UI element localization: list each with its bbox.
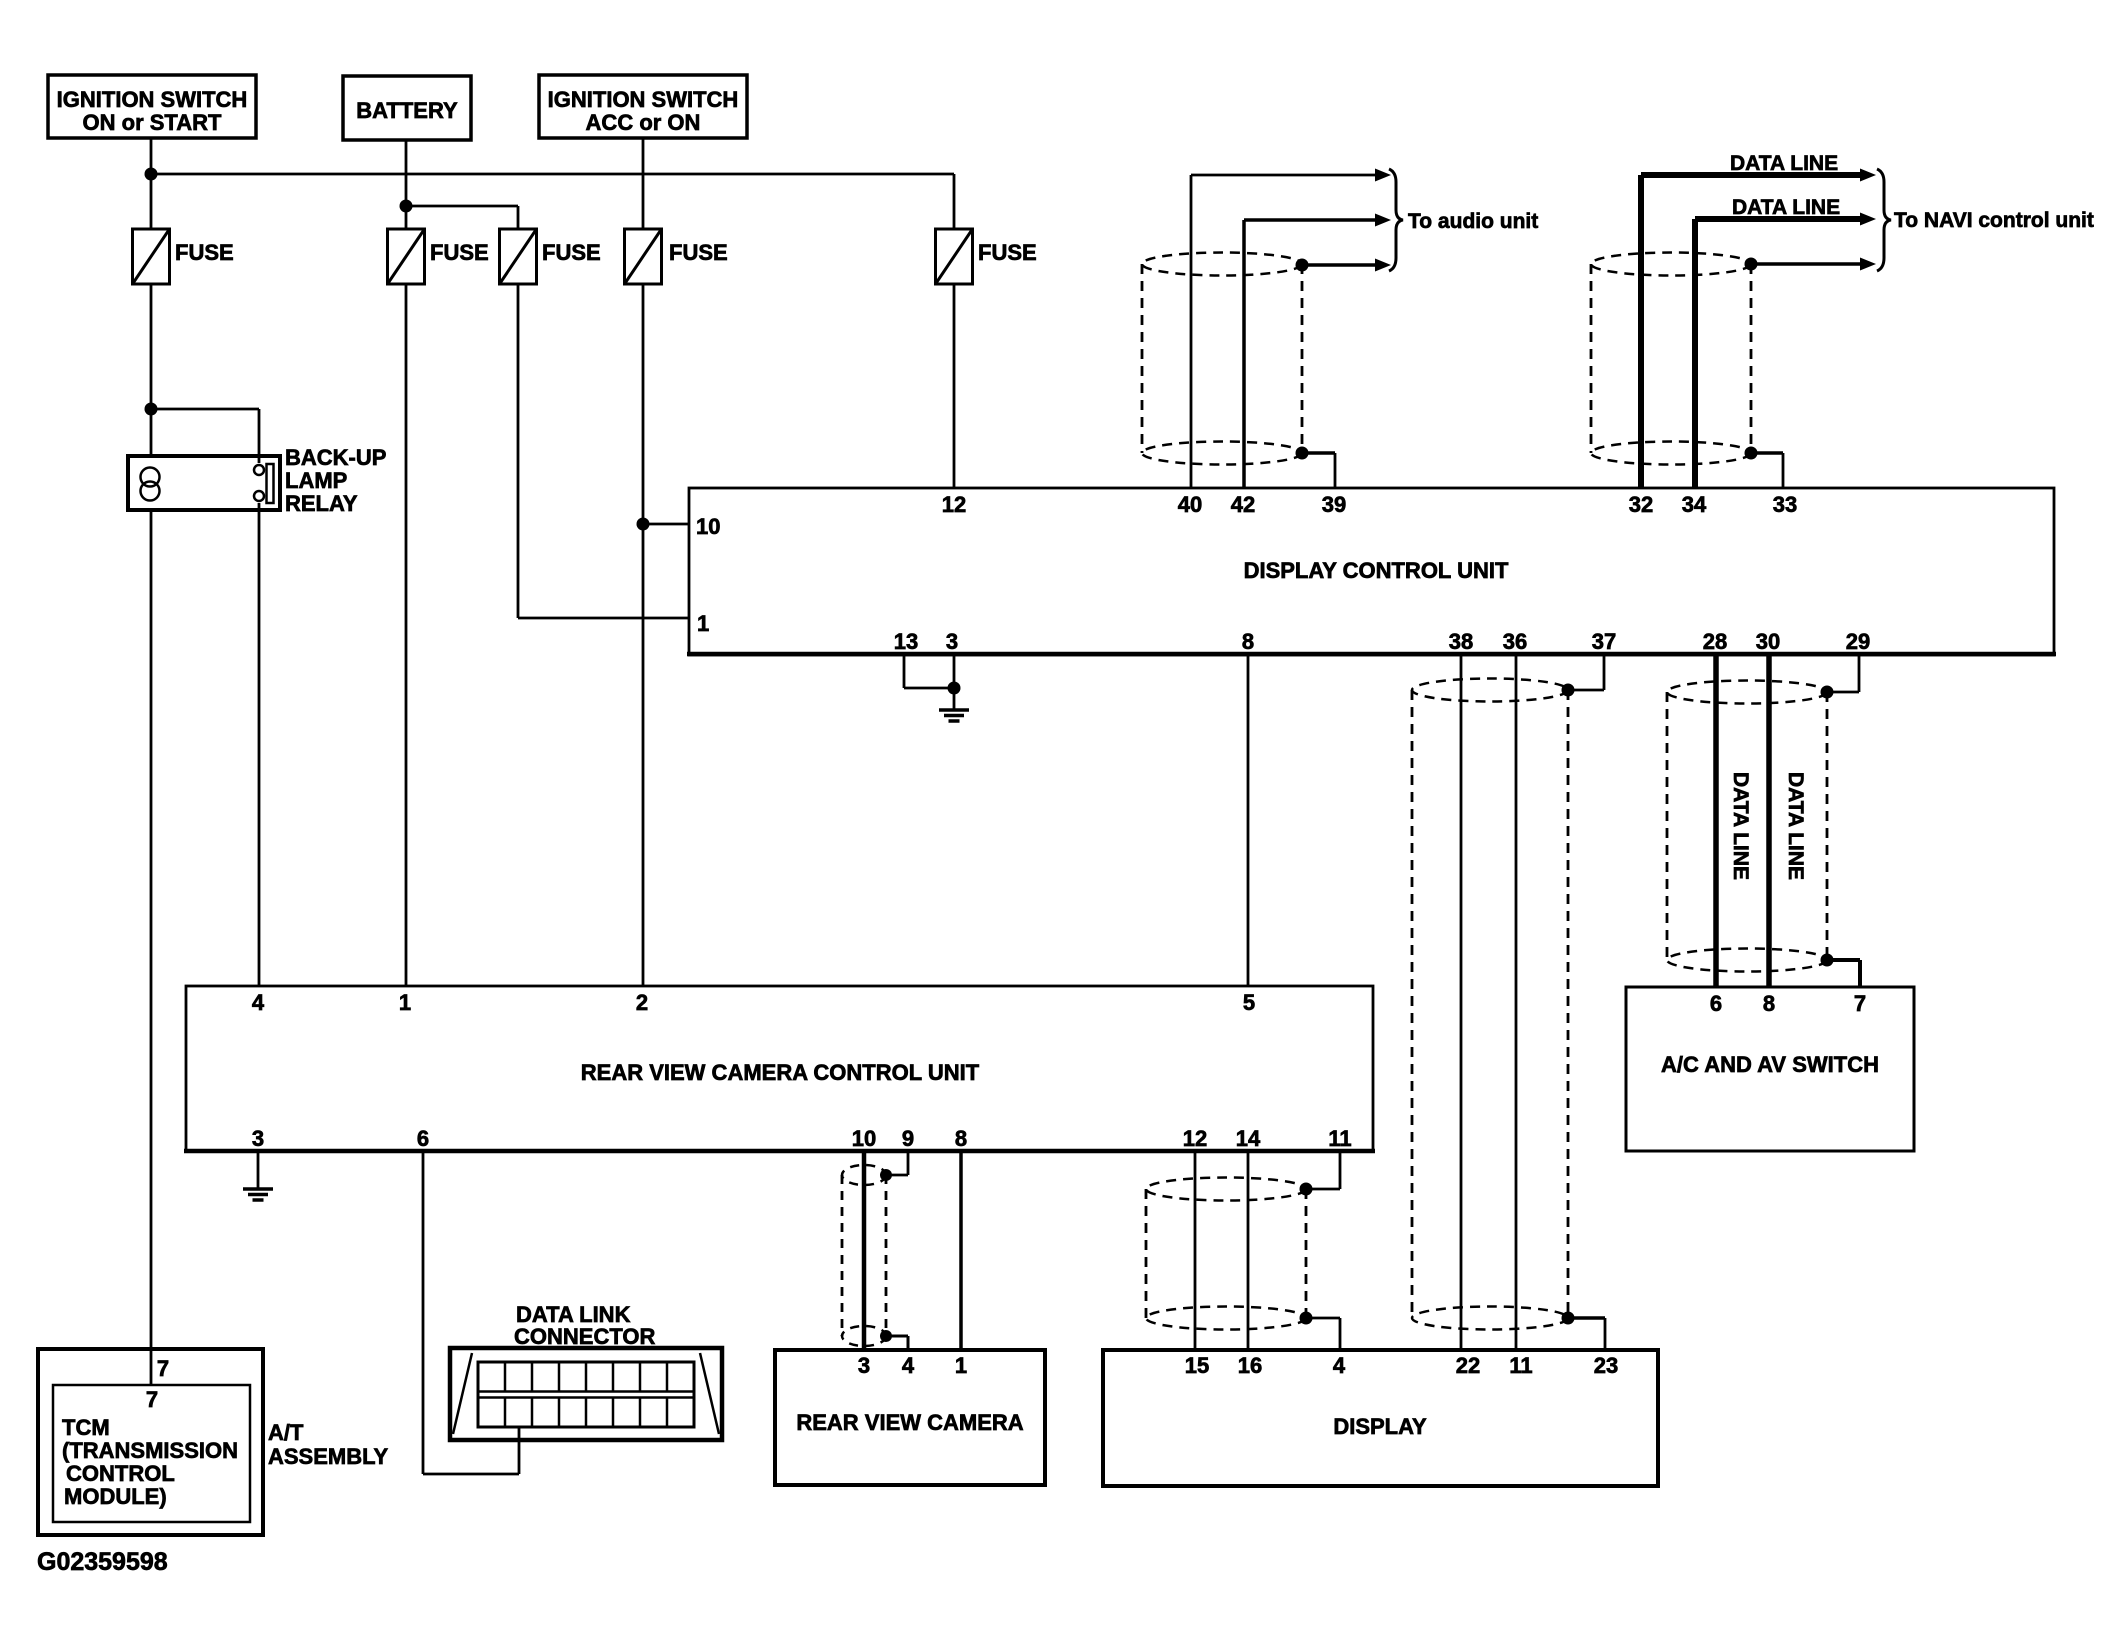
junction: shield drain top (1296, 259, 1309, 272)
wire: pin 42 to audio arrow (1244, 218, 1384, 222)
svg-text:ASSEMBLY: ASSEMBLY (268, 1444, 389, 1469)
wire: DCU pin 36 to display pin 11 (1515, 655, 1518, 1350)
svg-text:CONNECTOR: CONNECTOR (514, 1324, 655, 1349)
wire: pin 11 to shield drain (1306, 1188, 1340, 1191)
svg-text:33: 33 (1773, 492, 1797, 517)
wire: battery branch right (406, 205, 518, 208)
svg-text:37: 37 (1592, 629, 1616, 654)
junction: IGN ON bus tap (145, 168, 158, 181)
svg-text:28: 28 (1703, 629, 1727, 654)
svg-text:A/C AND AV SWITCH: A/C AND AV SWITCH (1661, 1052, 1879, 1077)
svg-text:LAMP: LAMP (285, 468, 347, 493)
svg-text:12: 12 (942, 492, 966, 517)
junction: NAVI shield drain bottom (1745, 447, 1758, 460)
wire: branch down to fuse F3 (517, 206, 520, 229)
svg-text:BATTERY: BATTERY (356, 98, 458, 123)
svg-text:RELAY: RELAY (285, 491, 358, 516)
arrowhead: to audio unit (pin 42) (1375, 214, 1391, 227)
svg-text:FUSE: FUSE (669, 240, 728, 265)
svg-text:5: 5 (1243, 990, 1255, 1015)
svg-text:34: 34 (1682, 492, 1707, 517)
svg-text:7: 7 (1854, 991, 1866, 1016)
svg-text:11: 11 (1328, 1126, 1351, 1151)
wire: RVCCU pin 11 down (1339, 1153, 1342, 1189)
svg-text:10: 10 (696, 514, 720, 539)
arrowhead: to NAVI (shield) (1860, 258, 1876, 271)
wire: fuse F2 to camera control unit pin 1 (405, 284, 408, 986)
data line wire: DCU pin 28 to A/C switch pin 6 (1713, 655, 1719, 987)
shield drain side (right) (1305, 1189, 1308, 1318)
wire: up into data link connector (518, 1427, 521, 1474)
svg-text:13: 13 (894, 629, 918, 654)
wire: pin 6 to data link connector (423, 1473, 519, 1476)
svg-text:6: 6 (417, 1126, 429, 1151)
svg-text:3: 3 (252, 1126, 264, 1151)
junction: RVCCU shield drain bottom (1300, 1312, 1313, 1325)
wire: relay contact to camera control unit pin 4 (258, 503, 261, 986)
shielded cable around pins 12/14 wires (1146, 1178, 1306, 1201)
svg-text:12: 12 (1183, 1126, 1207, 1151)
wire: DCU pin 13 down (903, 655, 906, 688)
shield side (left) (1590, 264, 1593, 453)
A/T assembly outer box (38, 1349, 263, 1535)
data line wire: DCU pin 30 to A/C switch pin 8 (1766, 655, 1772, 987)
wire: bus down to fuse F5 (953, 174, 956, 229)
svg-text:14: 14 (1236, 1126, 1261, 1151)
svg-text:8: 8 (1242, 629, 1254, 654)
svg-text:3: 3 (946, 629, 958, 654)
junction: display shield drain top (1562, 684, 1575, 697)
svg-text:22: 22 (1456, 1353, 1480, 1378)
fuse F1 (ignition) (133, 229, 234, 284)
shielded cable around camera video wire (842, 1165, 886, 1185)
junction: pins 13/3 ground node (948, 682, 961, 695)
wire: NAVI shield drain to pin 33 (1751, 451, 1783, 455)
wire: pin 37 to shield drain (1568, 689, 1604, 692)
wire: fuse F4 to camera control unit pin 2 (642, 284, 645, 986)
power source box: IGNITION SWITCH ON or START (48, 75, 256, 138)
label: TCM (TRANSMISSION CONTROL MODULE) (62, 1415, 238, 1509)
wire: branch to DCU pin 10 (643, 523, 689, 526)
data line wire: DCU pin 32 up (1638, 175, 1644, 488)
data link connector pin grid (478, 1362, 694, 1427)
svg-text:40: 40 (1178, 492, 1202, 517)
label: A/T ASSEMBLY (268, 1420, 389, 1469)
label: DATA LINK CONNECTOR (514, 1302, 655, 1349)
svg-text:39: 39 (1322, 492, 1346, 517)
svg-text:REAR VIEW CAMERA CONTROL UNIT: REAR VIEW CAMERA CONTROL UNIT (581, 1060, 980, 1085)
svg-text:ON or START: ON or START (83, 110, 222, 135)
wire: pin 40 to audio arrow (1191, 174, 1385, 177)
wire: ignition bus to DCU pin 12 branch (151, 173, 954, 176)
svg-text:BACK-UP: BACK-UP (285, 445, 386, 470)
svg-text:1: 1 (399, 990, 411, 1015)
wire: RVCCU pin 10 to camera pin 3 (video) (862, 1153, 867, 1350)
svg-text:DATA LINE: DATA LINE (1730, 152, 1838, 175)
label: BACK-UP LAMP RELAY (285, 445, 386, 516)
wire: shield drain to display pin 23 (1568, 1316, 1605, 1320)
wire: shield drain to display pin 4 (1306, 1317, 1340, 1320)
svg-text:1: 1 (955, 1353, 967, 1378)
svg-text:REAR VIEW CAMERA: REAR VIEW CAMERA (796, 1410, 1023, 1435)
wire: fuse F1 to back-up lamp relay coil (150, 284, 153, 456)
fuse F3 (battery branch) (500, 229, 601, 284)
svg-text:2: 2 (636, 990, 648, 1015)
svg-text:23: 23 (1594, 1353, 1618, 1378)
shield drain side (right) (1826, 692, 1829, 960)
wire: IGN ACC down to fuse F4 (642, 138, 645, 229)
wire: RVCCU pin 6 down (422, 1153, 425, 1474)
wire: pin 9 to camera shield drain (886, 1174, 908, 1177)
svg-text:MODULE): MODULE) (64, 1484, 167, 1509)
wire: down to display pin 23 (1604, 1318, 1607, 1350)
wire: DCU pin 38 to display pin 22 (1460, 655, 1463, 1350)
wire: down to camera pin 4 (907, 1336, 910, 1350)
svg-text:11: 11 (1509, 1353, 1532, 1378)
wire: down to A/C switch pin 7 (1858, 960, 1862, 987)
wire: DCU pin 8 to camera control unit pin 5 (1247, 655, 1250, 986)
shield side (left) (1666, 692, 1669, 960)
wire: IGN ON/START down to fuse F1 (150, 138, 153, 229)
power source box: BATTERY (343, 76, 471, 140)
junction: display shield drain bottom (1562, 1312, 1575, 1325)
svg-text:42: 42 (1231, 492, 1255, 517)
svg-text:FUSE: FUSE (542, 240, 601, 265)
junction: RVCCU shield drain top (1300, 1183, 1313, 1196)
rear view camera box (775, 1350, 1045, 1485)
svg-text:FUSE: FUSE (978, 240, 1037, 265)
svg-text:A/T: A/T (268, 1420, 304, 1445)
junction: A/C shield drain top (1821, 686, 1834, 699)
svg-text:To audio unit: To audio unit (1408, 210, 1538, 233)
shielded cable around pins 40/42 wires (1142, 253, 1302, 276)
data link connector housing (450, 1348, 722, 1440)
shield drain side (right) (1301, 264, 1304, 453)
svg-text:DATA LINE: DATA LINE (1784, 772, 1807, 880)
wire: RVCCU pin 3 to ground (257, 1153, 260, 1188)
svg-text:IGNITION SWITCH: IGNITION SWITCH (548, 87, 739, 112)
wire: RVCCU pin 9 down (907, 1153, 910, 1175)
fuse F2 (battery) (388, 229, 489, 284)
junction: camera shield drain top (880, 1169, 892, 1181)
wire: DCU pin 29 down (1858, 655, 1861, 692)
junction: battery branch (400, 200, 413, 213)
svg-text:8: 8 (1763, 991, 1775, 1016)
wire: shield drain to audio arrow (1302, 263, 1384, 267)
shield drain side (right) (1567, 690, 1570, 1318)
svg-text:(TRANSMISSION: (TRANSMISSION (62, 1438, 238, 1463)
svg-text:29: 29 (1846, 629, 1870, 654)
rear view camera control unit box (184, 986, 1375, 1151)
camera shield side (left) (841, 1175, 844, 1336)
svg-text:32: 32 (1629, 492, 1653, 517)
svg-text:4: 4 (1333, 1353, 1346, 1378)
shield drain side (right) (1750, 264, 1753, 453)
svg-text:DISPLAY CONTROL UNIT: DISPLAY CONTROL UNIT (1244, 558, 1509, 583)
svg-text:3: 3 (858, 1353, 870, 1378)
junction: camera shield drain bottom (880, 1330, 892, 1342)
wire: DCU pin 40 up (1190, 175, 1193, 488)
wire: battery down to fuse F2 (405, 140, 408, 229)
wire: camera shield drain right (886, 1335, 908, 1338)
svg-text:6: 6 (1710, 991, 1722, 1016)
shield side (left) (1411, 690, 1414, 1318)
wire: RVCCU pin 8 to camera pin 1 (959, 1153, 963, 1350)
junction: NAVI shield drain top (1745, 258, 1758, 271)
svg-text:DISPLAY: DISPLAY (1333, 1414, 1427, 1439)
fuse F5 (bus) (936, 229, 1037, 284)
wire: NAVI shield drain to arrow (1751, 262, 1868, 266)
svg-text:TCM: TCM (62, 1415, 110, 1440)
power source box: IGNITION SWITCH ACC or ON (539, 75, 747, 138)
junction: shield drain bottom (1296, 447, 1309, 460)
wire: DCU pin 37 down (1603, 655, 1606, 690)
arrowhead: to audio unit (pin 40) (1375, 169, 1391, 182)
shielded cable around pins 32/34 data lines (1591, 253, 1751, 276)
wire: relay coil to TCM pin 7 (150, 510, 153, 1385)
wire: DCU pin 42 up (1242, 220, 1246, 488)
svg-text:7: 7 (146, 1387, 158, 1412)
svg-text:7: 7 (157, 1356, 169, 1381)
arrowhead: to NAVI (pin 34) (1860, 213, 1876, 226)
junction: ACC branch to DCU pin 10 (637, 518, 650, 531)
wire: shield drain to pin 39 (1302, 451, 1335, 455)
junction: A/C shield drain bottom (1821, 954, 1834, 967)
data line wire: DCU pin 34 up (1692, 219, 1698, 488)
svg-text:G02359598: G02359598 (37, 1548, 168, 1576)
long shielded cable around pins 38/36 wires (1412, 679, 1568, 702)
svg-text:CONTROL: CONTROL (66, 1461, 175, 1486)
wire: fuse F5 to DCU pin 12 (953, 284, 956, 488)
svg-text:ACC or ON: ACC or ON (586, 110, 701, 135)
wire: down to DCU pin 39 (1334, 453, 1337, 488)
wire: fuse F3 down (517, 284, 520, 618)
svg-text:FUSE: FUSE (175, 240, 234, 265)
svg-text:16: 16 (1238, 1353, 1262, 1378)
svg-text:DATA LINE: DATA LINE (1732, 196, 1840, 219)
shielded cable around pins 28/30 data lines (1667, 681, 1827, 704)
shield side (left) (1141, 264, 1144, 453)
wire: pin 29 to shield drain (1827, 691, 1859, 694)
data line wire: pin 32 to NAVI arrow (1641, 172, 1868, 178)
svg-text:10: 10 (852, 1126, 876, 1151)
svg-text:To NAVI control unit: To NAVI control unit (1894, 209, 2094, 232)
shield side (left) (1145, 1189, 1148, 1318)
TCM inner box (53, 1385, 250, 1522)
wire: DCU pin 3 to ground (953, 655, 956, 709)
arrowhead: to NAVI (pin 32) (1860, 169, 1876, 182)
arrowhead: to audio unit (shield) (1375, 259, 1391, 272)
fuse F4 (ACC) (625, 229, 728, 284)
wire: down to display pin 4 (1339, 1318, 1342, 1350)
camera shield drain side (right) (885, 1175, 888, 1336)
svg-text:36: 36 (1503, 629, 1527, 654)
ground: RVCCU pin 3 (243, 1189, 273, 1200)
svg-text:38: 38 (1449, 629, 1473, 654)
display control unit box (687, 488, 2056, 655)
display box (1103, 1350, 1658, 1486)
svg-text:4: 4 (902, 1353, 915, 1378)
svg-text:30: 30 (1756, 629, 1780, 654)
svg-text:4: 4 (252, 990, 265, 1015)
wire: branch to relay contact (151, 408, 259, 411)
svg-text:1: 1 (697, 611, 709, 636)
svg-text:DATA LINE: DATA LINE (1729, 772, 1752, 880)
wire: shield drain to A/C pin 7 (1827, 958, 1860, 962)
wire: fuse F3 right to DCU pin 1 (518, 617, 689, 620)
svg-text:IGNITION SWITCH: IGNITION SWITCH (57, 87, 248, 112)
ground: DCU pins 13/3 (939, 710, 969, 721)
A/C and AV switch box (1626, 987, 1914, 1151)
data line wire: pin 34 to NAVI arrow (1695, 216, 1868, 222)
svg-text:15: 15 (1185, 1353, 1209, 1378)
wire: pin 13 to ground node (904, 687, 954, 690)
junction: relay contact branch (145, 403, 158, 416)
back-up lamp relay (128, 456, 280, 510)
wire: RVCCU pin 12 to display pin 15 (1194, 1153, 1197, 1350)
wire: down into relay contact (258, 409, 261, 463)
svg-text:FUSE: FUSE (430, 240, 489, 265)
svg-text:8: 8 (955, 1126, 967, 1151)
brace: to NAVI control unit group (1877, 169, 1891, 271)
wire: RVCCU pin 14 to display pin 16 (1247, 1153, 1250, 1350)
wire: down to DCU pin 33 (1782, 453, 1785, 488)
svg-text:9: 9 (902, 1126, 914, 1151)
brace: to audio unit group (1389, 169, 1403, 271)
